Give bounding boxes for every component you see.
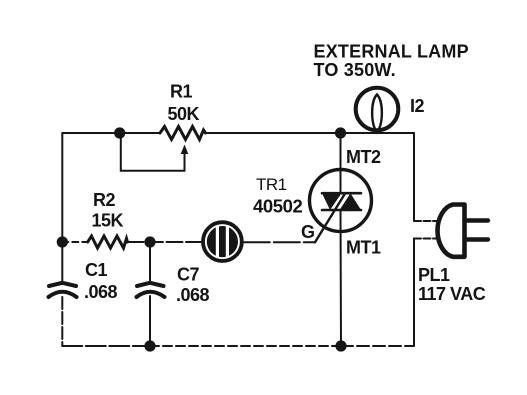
svg-text:R2: R2 [93,190,115,210]
svg-text:MT1: MT1 [346,238,381,258]
wire R2 left segment [62,241,87,243]
wire right lower vertical [413,239,415,347]
svg-text:40502: 40502 [253,196,303,217]
junction node MT1 bottom [335,340,346,351]
wire top right horizontal [206,132,415,134]
svg-text:TR1: TR1 [256,175,287,194]
svg-text:15K: 15K [92,211,124,231]
wire bottom horizontal [62,345,150,347]
svg-text:I2: I2 [410,96,425,116]
wire triac MT2 lead [340,133,342,193]
capacitor C7 [137,283,165,297]
svg-text:C1: C1 [85,260,107,280]
wire plug top lead [414,220,438,222]
junction node R2 right / C7 top [144,236,155,247]
junction node left R2 [57,236,68,247]
wire C7 vertical lower [149,296,151,346]
junction node C7 bottom [144,340,155,351]
wire left vertical lower [61,297,63,346]
wire bottom horizontal right [341,345,414,347]
lamp I2 [356,88,399,133]
wire gate diagonal [315,193,345,242]
svg-text:C7: C7 [177,265,199,285]
wire diac to gate bend [244,241,315,243]
svg-text:MT2: MT2 [346,147,381,167]
svg-text:R1: R1 [170,81,192,101]
wire left vertical [61,133,63,282]
wire R2 right segment [128,241,202,243]
capacitor C1 [49,283,77,297]
plug PL1 [437,205,488,257]
wire top left horizontal [62,132,160,134]
wire right upper vertical [413,133,415,221]
triac TR1 40502 [310,170,372,232]
svg-text:EXTERNAL LAMP: EXTERNAL LAMP [314,41,469,61]
svg-text:.068: .068 [176,285,210,305]
resistor R1 (50K potentiometer) [160,127,206,140]
junction node at lamp left [335,127,346,138]
svg-text:.068: .068 [84,282,118,302]
wire bottom horizontal mid [150,345,341,347]
wiper arrowhead [181,145,189,155]
svg-text:50K: 50K [168,104,200,124]
svg-text:TO 350W.: TO 350W. [314,60,396,80]
junction node at R1 left [114,127,125,138]
svg-text:G: G [301,222,315,242]
wire triac MT1 lead [340,210,343,346]
svg-text:PL1: PL1 [418,265,450,285]
wire C7 vertical [149,242,151,283]
wiper arm return wire [121,133,185,171]
svg-text:117 VAC: 117 VAC [418,284,486,304]
wire plug bottom lead [414,238,436,240]
resistor R2 (15K) [88,236,128,248]
diac (neon trigger) D1 [203,222,242,261]
